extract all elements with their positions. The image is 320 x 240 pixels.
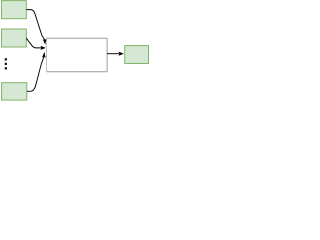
central box top border xyxy=(47,37,108,39)
central box left border xyxy=(46,38,48,72)
wire: connector from box2 to central box xyxy=(26,38,41,48)
input box 2 (mid-left green) xyxy=(2,29,27,47)
output box (right green) xyxy=(125,46,149,64)
arrowhead of connector 1 xyxy=(43,39,47,45)
background xyxy=(0,0,150,102)
central process box (white fill) xyxy=(47,38,108,72)
wire: connector from box3 to central box xyxy=(27,57,44,91)
arrowhead of connector 3 xyxy=(42,52,46,58)
arrowhead of output connector xyxy=(118,52,123,56)
central box right border xyxy=(106,38,108,72)
wire: connector from box1 to central box xyxy=(26,10,44,40)
ellipsis dot 3 xyxy=(5,67,7,69)
arrowhead of connector 2 xyxy=(40,46,45,50)
central box bottom border xyxy=(47,71,108,73)
ellipsis dot 1 xyxy=(5,58,7,60)
input box 1 (top-left green) xyxy=(2,1,27,19)
ellipsis dot 2 xyxy=(5,63,7,65)
wire: output connector from central box to right box xyxy=(107,53,120,55)
input box 3 (bottom-left green) xyxy=(2,83,27,100)
